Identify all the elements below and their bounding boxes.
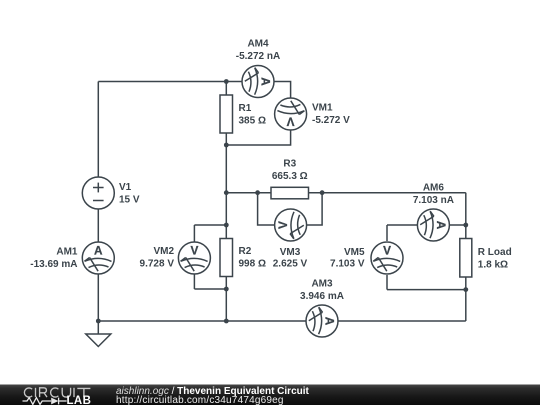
svg-text:7.103 V: 7.103 V (330, 258, 365, 269)
svg-text:665.3 Ω: 665.3 Ω (272, 171, 308, 182)
svg-text:VM2: VM2 (153, 246, 174, 257)
svg-text:9.728 V: 9.728 V (140, 259, 175, 270)
svg-text:http://circuitlab.com/c34u7474: http://circuitlab.com/c34u7474g69eg (116, 395, 284, 405)
svg-text:998 Ω: 998 Ω (239, 259, 266, 270)
svg-text:1.8 kΩ: 1.8 kΩ (478, 259, 508, 270)
svg-text:3.946 mA: 3.946 mA (300, 291, 344, 302)
svg-text:AM1: AM1 (56, 247, 78, 258)
svg-text:VM5: VM5 (344, 247, 365, 258)
svg-text:7.103 nA: 7.103 nA (413, 195, 454, 206)
svg-text:2.625 V: 2.625 V (273, 258, 308, 269)
svg-text:-5.272 V: -5.272 V (312, 115, 350, 126)
svg-text:AM6: AM6 (423, 183, 445, 194)
svg-text:AM3: AM3 (311, 279, 333, 290)
svg-text:R Load: R Load (478, 247, 512, 258)
svg-text:15 V: 15 V (119, 195, 140, 206)
svg-text:-13.69 mA: -13.69 mA (30, 259, 77, 270)
svg-text:R1: R1 (239, 103, 252, 114)
svg-text:V1: V1 (119, 182, 132, 193)
svg-text:VM3: VM3 (280, 247, 301, 258)
svg-text:AM4: AM4 (247, 39, 269, 50)
svg-text:VM1: VM1 (312, 103, 333, 114)
svg-text:-5.272 nA: -5.272 nA (236, 51, 280, 62)
svg-text:385 Ω: 385 Ω (239, 116, 266, 127)
svg-text:LAB: LAB (67, 395, 92, 405)
svg-text:R2: R2 (239, 246, 252, 257)
svg-text:R3: R3 (283, 159, 296, 170)
